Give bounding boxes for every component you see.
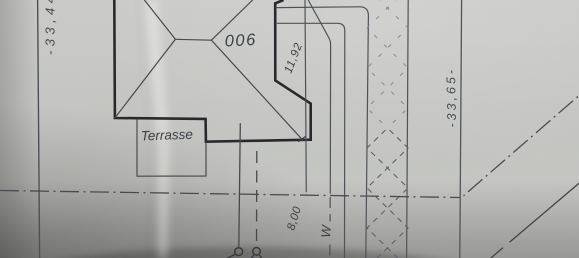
hatch zigzag (dashed lattice) upper faint xyxy=(367,0,408,148)
hatch band right edge V5 xyxy=(407,0,409,258)
W line dashed lower part xyxy=(329,197,331,258)
boundary line (left, vertical) xyxy=(38,0,40,258)
hatch zigzag (dashed lattice) lower xyxy=(367,108,408,258)
roof hip lower-right xyxy=(211,40,302,140)
dash-dot boundary diagonal (upper right) xyxy=(464,96,579,196)
bent boundary line with curve (upper) continuing as W water line xyxy=(308,0,330,194)
boundary line V1 (beside building) xyxy=(305,0,306,192)
legs below circle B xyxy=(251,255,263,258)
roof ridge xyxy=(175,38,211,41)
terrasse box xyxy=(137,119,206,176)
spur from circle A xyxy=(226,254,236,258)
path edge H1 with rounded corner into vertical V3 (hatch band left edge) xyxy=(277,7,369,258)
path edge H2 with rounded corner into vertical V2 xyxy=(277,23,345,258)
survey cross at building corner xyxy=(298,136,306,142)
pipe line B (dashed, to circle) xyxy=(256,151,258,247)
dash-dot boundary horizontal xyxy=(0,191,460,198)
boundary line V6 (right) xyxy=(460,0,462,258)
circle B xyxy=(253,248,261,256)
circle A xyxy=(235,248,243,256)
roof hip upper-right xyxy=(211,0,252,40)
paper crease (vertical fold highlight) xyxy=(138,0,171,258)
solid diagonal (bottom right) xyxy=(490,183,579,258)
roof hip upper-left xyxy=(144,0,175,39)
building outline (thick) xyxy=(114,0,310,142)
roof hip lower-left xyxy=(115,39,175,118)
pipe line A (solid, to circle) xyxy=(239,123,241,247)
